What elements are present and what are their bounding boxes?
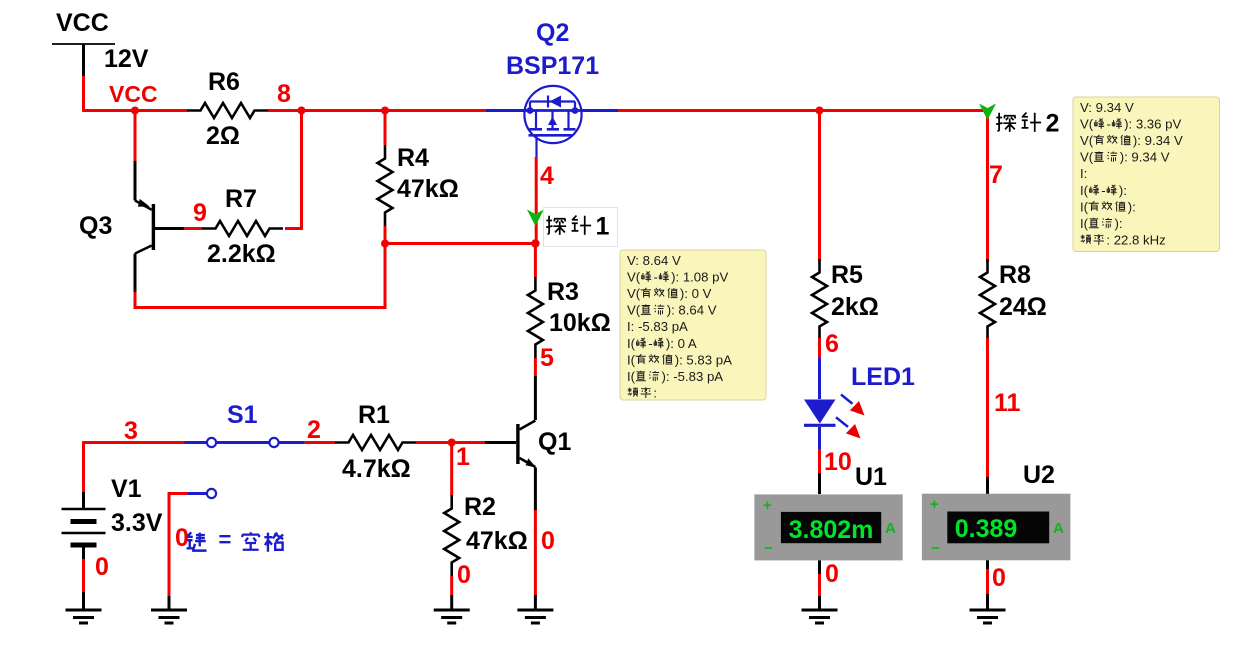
wire rail Q2 to R5 xyxy=(618,109,820,112)
wire Q3 base black xyxy=(155,227,184,230)
svg-text:): 0 A: ): 0 A xyxy=(666,336,697,351)
svg-text:R4: R4 xyxy=(397,144,429,172)
wire Q1 base black xyxy=(485,441,516,444)
junction R5 top xyxy=(816,107,824,115)
wire top rail left xyxy=(82,109,187,112)
svg-text:R3: R3 xyxy=(547,278,579,306)
switch S1 lower throw xyxy=(207,489,216,498)
junction R4 top xyxy=(381,107,389,115)
svg-text:2Ω: 2Ω xyxy=(206,122,240,150)
svg-text:I(: I( xyxy=(627,369,636,384)
svg-text:−: − xyxy=(764,540,773,557)
resistor R6 xyxy=(187,103,268,118)
ground Q1 xyxy=(517,609,553,612)
transistor Q2 BSP171 xyxy=(524,86,581,157)
wire Q2 gate red xyxy=(535,157,538,243)
svg-text:0.389: 0.389 xyxy=(955,515,1018,543)
measurement box probe2 xyxy=(1073,97,1220,252)
svg-text:):: ): xyxy=(1128,199,1136,214)
wire Q3 collector red L xyxy=(135,244,385,308)
ground U1 xyxy=(802,609,838,612)
svg-text:): -5.83 pA: ): -5.83 pA xyxy=(662,369,724,384)
svg-text:1: 1 xyxy=(596,213,610,241)
junction VCC xyxy=(131,107,139,115)
svg-text:V(: V( xyxy=(1080,150,1094,165)
svg-text:R2: R2 xyxy=(464,493,496,521)
wire rail R5 to probe2 corner xyxy=(820,109,989,112)
svg-text:-: - xyxy=(648,336,652,351)
svg-text:I:: I: xyxy=(1080,166,1087,181)
wire R6 to node8 xyxy=(268,109,385,112)
svg-text:): 0 V: ): 0 V xyxy=(680,286,712,301)
ground V1 xyxy=(66,609,102,612)
resistor R3 xyxy=(534,244,537,278)
svg-text:I(: I( xyxy=(1080,216,1089,231)
svg-text:+: + xyxy=(763,497,772,514)
svg-text:6: 6 xyxy=(825,330,839,358)
LED1 arrows xyxy=(841,395,853,404)
wire U2 bottom xyxy=(986,560,989,569)
svg-text:V(: V( xyxy=(1080,133,1094,148)
svg-text:2: 2 xyxy=(1046,110,1060,138)
svg-text:Q3: Q3 xyxy=(79,212,112,240)
svg-text:A: A xyxy=(1053,520,1064,537)
svg-text:V: 9.34 V: V: 9.34 V xyxy=(1080,100,1134,115)
junction probe1 node xyxy=(531,239,539,247)
probe1 label xyxy=(544,208,618,247)
measurement box probe1 xyxy=(620,250,766,400)
ammeter U2 xyxy=(922,494,1071,561)
svg-text:2kΩ: 2kΩ xyxy=(831,293,879,321)
svg-text:=: = xyxy=(219,527,232,552)
probe2 label xyxy=(996,113,1016,132)
switch S1 xyxy=(185,441,208,444)
svg-text:: 22.8 kHz: : 22.8 kHz xyxy=(1106,233,1165,248)
svg-text:2: 2 xyxy=(307,416,321,444)
svg-text:1: 1 xyxy=(456,443,470,471)
svg-text:I(: I( xyxy=(627,336,636,351)
wire R2 bottom xyxy=(450,595,453,610)
resistor R4 xyxy=(384,111,387,146)
wire probe2 drop xyxy=(986,111,989,263)
wire V1 to S1 xyxy=(82,441,184,444)
svg-text:5: 5 xyxy=(540,344,554,372)
svg-text:12V: 12V xyxy=(104,45,149,73)
key label xyxy=(187,532,207,550)
resistor R8 xyxy=(980,259,995,340)
wire connector R4-R3 xyxy=(385,242,535,245)
svg-text:R5: R5 xyxy=(831,261,863,289)
svg-text:BSP171: BSP171 xyxy=(506,52,599,80)
svg-text:2.2kΩ: 2.2kΩ xyxy=(207,240,276,268)
svg-text:I: -5.83 pA: I: -5.83 pA xyxy=(627,319,688,334)
svg-text:4.7kΩ: 4.7kΩ xyxy=(342,455,411,483)
wire LED to U1 xyxy=(818,449,821,473)
svg-text:I(: I( xyxy=(627,352,636,367)
wire R1 to junction1 xyxy=(416,441,485,444)
svg-text:VCC: VCC xyxy=(109,81,158,107)
resistor R2 xyxy=(450,443,453,496)
resistor R7 xyxy=(202,221,283,236)
svg-text:R1: R1 xyxy=(358,401,390,429)
junction node 8 xyxy=(298,107,306,115)
svg-text:V: 8.64 V: V: 8.64 V xyxy=(627,253,681,268)
LED1 xyxy=(818,358,821,399)
svg-text:): 1.08 pV: ): 1.08 pV xyxy=(671,269,728,284)
svg-text:-: - xyxy=(1101,183,1105,198)
svg-text:R8: R8 xyxy=(999,261,1031,289)
ground R2 xyxy=(434,609,470,612)
svg-text:3.802m: 3.802m xyxy=(789,516,874,544)
wire S1 to R1 xyxy=(305,441,335,444)
svg-text:4: 4 xyxy=(540,162,554,190)
svg-text:V1: V1 xyxy=(111,475,142,503)
ground S1 xyxy=(151,609,187,612)
svg-text:): 5.83 pA: ): 5.83 pA xyxy=(675,352,732,367)
svg-text:0: 0 xyxy=(992,564,1006,592)
svg-text:−: − xyxy=(931,540,940,557)
svg-text:3: 3 xyxy=(124,417,138,445)
svg-text:Q1: Q1 xyxy=(538,428,571,456)
svg-text:Q2: Q2 xyxy=(536,19,569,47)
svg-text:I(: I( xyxy=(1080,183,1089,198)
svg-text:+: + xyxy=(930,496,939,513)
svg-text:): 9.34 V: ): 9.34 V xyxy=(1120,150,1170,165)
svg-text:0: 0 xyxy=(457,561,471,589)
svg-text:): 8.64 V: ): 8.64 V xyxy=(667,303,717,318)
svg-text:-: - xyxy=(654,269,658,284)
svg-text:0: 0 xyxy=(825,560,839,588)
svg-text:R6: R6 xyxy=(208,68,240,96)
wire R8 to U2 xyxy=(986,477,989,494)
svg-text:):: ): xyxy=(1119,183,1127,198)
ground U2 xyxy=(970,609,1006,612)
svg-text:8: 8 xyxy=(277,80,291,108)
svg-text:24Ω: 24Ω xyxy=(999,293,1047,321)
resistor R1 xyxy=(335,435,416,450)
svg-text:I(: I( xyxy=(1080,199,1089,214)
svg-text:47kΩ: 47kΩ xyxy=(397,175,459,203)
battery V1 xyxy=(82,443,85,493)
svg-text:U1: U1 xyxy=(855,463,887,491)
resistor R5 xyxy=(812,259,827,340)
svg-text:10kΩ: 10kΩ xyxy=(549,309,611,337)
svg-text:V(: V( xyxy=(1080,116,1094,131)
svg-text:3.3V: 3.3V xyxy=(111,509,163,537)
junction R4 bottom xyxy=(381,240,389,248)
wire Q1 emitter xyxy=(534,468,537,511)
transistor Q1 xyxy=(534,376,537,420)
svg-text:VCC: VCC xyxy=(56,9,109,37)
ammeter U1 xyxy=(754,494,902,560)
svg-text:-: - xyxy=(1107,116,1111,131)
svg-text:7: 7 xyxy=(989,161,1003,189)
svg-text:): 3.36 pV: ): 3.36 pV xyxy=(1124,116,1181,131)
wire node9 red xyxy=(184,227,202,230)
wire rail to Q2 xyxy=(385,109,486,112)
wire VCC drop xyxy=(82,76,85,111)
power symbol VCC 12V xyxy=(52,43,115,45)
wire blue Q2 right xyxy=(580,109,618,112)
probe 1 xyxy=(527,210,544,227)
svg-text:0: 0 xyxy=(95,553,109,581)
svg-text:9: 9 xyxy=(193,199,207,227)
svg-text:V(: V( xyxy=(627,286,641,301)
wire U1 bottom xyxy=(818,560,821,574)
svg-text:V(: V( xyxy=(627,303,641,318)
wire R7 to node8 riser xyxy=(285,111,302,229)
svg-text:47kΩ: 47kΩ xyxy=(466,527,528,555)
wire R5 drop xyxy=(818,111,821,262)
svg-text:S1: S1 xyxy=(227,401,258,429)
svg-text::: : xyxy=(653,386,657,401)
svg-text:V(: V( xyxy=(627,269,641,284)
svg-text:U2: U2 xyxy=(1023,461,1055,489)
svg-text:): 9.34 V: ): 9.34 V xyxy=(1133,133,1183,148)
junction node 1 xyxy=(448,439,456,447)
svg-text:):: ): xyxy=(1115,216,1123,231)
svg-text:A: A xyxy=(885,520,896,537)
wire blue Q2 left xyxy=(486,109,526,112)
svg-text:R7: R7 xyxy=(225,185,257,213)
transistor Q3 xyxy=(134,111,137,162)
svg-text:10: 10 xyxy=(824,448,852,476)
svg-text:11: 11 xyxy=(994,389,1021,417)
svg-text:0: 0 xyxy=(541,527,555,555)
svg-text:LED1: LED1 xyxy=(851,363,915,391)
